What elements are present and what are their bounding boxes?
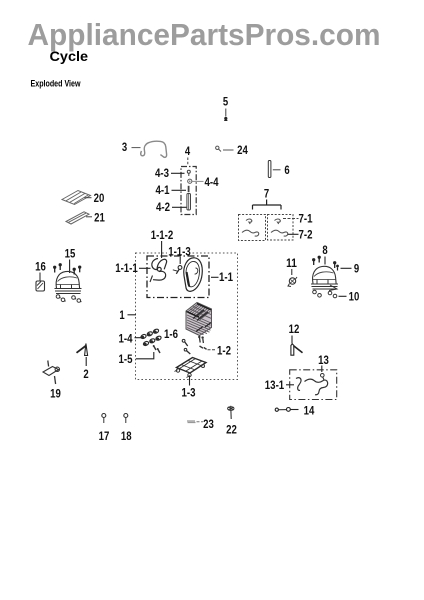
svg-text:1-4: 1-4 (119, 332, 133, 346)
part 21 strip (66, 212, 89, 224)
svg-text:1-5: 1-5 (119, 352, 133, 366)
leader 1-4 (135, 337, 142, 339)
label 5 (223, 95, 229, 109)
label 21 (94, 211, 105, 225)
label 4-3 (155, 166, 169, 180)
svg-text:1-1: 1-1 (219, 270, 233, 284)
label 14 (304, 404, 315, 418)
svg-text:20: 20 (94, 191, 105, 205)
part 14 (275, 408, 298, 412)
part 17 screw (102, 414, 106, 424)
leader 13 (321, 366, 323, 373)
part 7-2a clip (275, 219, 281, 224)
svg-text:1-1-1: 1-1-1 (115, 261, 138, 275)
box 7-1 (239, 215, 266, 241)
part 6 pin (268, 161, 271, 178)
part 2 pin (77, 344, 88, 356)
label 15 (65, 247, 76, 261)
svg-text:15: 15 (65, 247, 76, 261)
label 1-1-2 (151, 228, 174, 242)
part 13 screw (321, 374, 325, 381)
svg-text:4-3: 4-3 (155, 166, 169, 180)
leader 5 (225, 109, 227, 117)
label 3 (122, 140, 128, 154)
svg-text:13: 13 (318, 353, 329, 367)
part 13 tube (305, 379, 328, 395)
svg-text:24: 24 (237, 143, 248, 157)
leader 3 (132, 147, 141, 149)
leader 6 (273, 169, 281, 171)
part evaporator (186, 303, 212, 339)
label 20 (94, 191, 105, 205)
part 8 bolts (313, 256, 336, 268)
svg-text:Cycle: Cycle (50, 49, 89, 65)
part 1-1 blower (184, 258, 203, 292)
label 4 (185, 144, 191, 158)
part 18 screw (124, 414, 128, 424)
label 23 (203, 417, 214, 431)
svg-text:13-1: 13-1 (265, 378, 285, 392)
svg-text:4: 4 (185, 144, 191, 158)
part 1-3 tray (175, 358, 207, 378)
svg-text:1-2: 1-2 (217, 344, 231, 358)
label 7 (264, 187, 270, 201)
svg-text:AppliancePartsPros.com: AppliancePartsPros.com (28, 17, 381, 52)
part 1-2 bolts (198, 336, 207, 350)
part 1-1-1 fan motor (150, 259, 167, 283)
box 1 (136, 253, 238, 380)
label 9 (354, 262, 360, 276)
part 7-1a clip (246, 219, 252, 224)
svg-text:17: 17 (99, 429, 110, 443)
label 13 (318, 353, 329, 367)
svg-text:4-4: 4-4 (205, 175, 219, 189)
part 20 grille (62, 191, 91, 205)
leader 12 (291, 336, 293, 344)
label 1-2 (217, 344, 231, 358)
svg-text:4-2: 4-2 (156, 200, 170, 214)
leader 1-1-1 (139, 267, 151, 269)
label 1-1-3 (167, 245, 192, 259)
svg-text:19: 19 (50, 387, 61, 401)
part 5 screw (224, 117, 227, 121)
leader 7-1 (283, 218, 299, 220)
label 1-3 (182, 386, 196, 400)
leader 1 (128, 314, 137, 316)
label 1-6 (164, 327, 178, 341)
watermark AppliancePartsPros.com (28, 17, 381, 52)
leader 7-2 (288, 233, 299, 235)
subtitle Exploded View (31, 78, 82, 88)
part 22 screw (228, 406, 234, 419)
part 11 (288, 269, 297, 287)
leader 24 (223, 149, 234, 151)
svg-text:1-1-2: 1-1-2 (151, 228, 174, 242)
svg-text:18: 18 (121, 429, 132, 443)
svg-text:Exploded View: Exploded View (31, 78, 82, 88)
label 4-1 (156, 183, 170, 197)
label 4-4 (205, 175, 219, 189)
leader 1-1 (211, 276, 219, 278)
part 1-4 dampers (140, 328, 161, 346)
leader 1-1-2 (161, 241, 163, 258)
label 8 (322, 243, 328, 257)
svg-text:3: 3 (122, 140, 128, 154)
leader 10 (339, 295, 347, 297)
svg-text:23: 23 (203, 417, 214, 431)
leader 1-5 (136, 352, 154, 359)
label 17 (99, 429, 110, 443)
label 12 (289, 322, 300, 336)
svg-text:16: 16 (35, 260, 46, 274)
leader 15 (69, 260, 71, 274)
part 16 (36, 273, 45, 292)
label 22 (226, 423, 237, 437)
svg-text:9: 9 (354, 262, 360, 276)
leader 1-2 (208, 349, 216, 351)
label 16 (35, 260, 46, 274)
svg-text:21: 21 (94, 211, 105, 225)
svg-text:10: 10 (349, 290, 360, 304)
part 4-3 screw (187, 170, 190, 176)
leader 20 (85, 197, 92, 199)
label 7-1 (299, 212, 313, 226)
leader 1-3 (189, 376, 191, 386)
leader 13-1 (286, 384, 294, 386)
part 9 screw (336, 265, 339, 271)
label 13-1 (265, 378, 285, 392)
part 19 bracket (43, 361, 60, 385)
svg-text:2: 2 (83, 367, 89, 381)
box 1-1 (147, 256, 209, 298)
part 8 compressor (311, 266, 338, 297)
svg-text:7: 7 (264, 187, 270, 201)
label 4-2 (156, 200, 170, 214)
leader 4-1 (172, 189, 187, 191)
svg-text:8: 8 (322, 243, 328, 257)
label 7-2 (299, 228, 313, 242)
part 1-5 screws (153, 345, 160, 353)
svg-text:5: 5 (223, 95, 229, 109)
svg-text:12: 12 (289, 322, 300, 336)
part 7-2b tube (271, 230, 288, 236)
leader 4-4 (193, 180, 204, 182)
part 3 clamp (141, 141, 167, 157)
part 24 screw (216, 146, 221, 151)
svg-text:1-3: 1-3 (182, 386, 196, 400)
leader 4 (187, 158, 189, 167)
leader 2 (85, 357, 87, 366)
part 1-6 screws (182, 339, 190, 354)
svg-text:1: 1 (119, 308, 125, 322)
label 18 (121, 429, 132, 443)
leader 8 (324, 257, 326, 265)
box 4 (181, 167, 196, 215)
svg-text:22: 22 (226, 423, 237, 437)
part 13-1 tube (296, 378, 301, 391)
part 4-2 cylinder (187, 194, 191, 211)
svg-text:14: 14 (304, 404, 315, 418)
part 15 bolts (54, 264, 81, 275)
label 1-1 (219, 270, 233, 284)
leader 9 (341, 267, 352, 269)
box 13 (290, 370, 337, 400)
label 1-4 (119, 332, 133, 346)
svg-text:4-1: 4-1 (156, 183, 170, 197)
label 6 (284, 163, 290, 177)
label 1-1-1 (115, 261, 138, 275)
leader 21 (86, 216, 92, 218)
leader 4-3 (171, 172, 185, 174)
part 4-4 grommet (188, 179, 192, 183)
leader 23 (197, 421, 204, 423)
part 7-1b tube (242, 230, 259, 236)
label 11 (286, 256, 297, 270)
label 10 (349, 290, 360, 304)
part 15 compressor (55, 271, 82, 302)
title Cycle (50, 49, 89, 65)
svg-text:11: 11 (286, 256, 297, 270)
label 2 (83, 367, 89, 381)
part 1-1-3 screw (173, 266, 182, 274)
label 19 (50, 387, 61, 401)
label 24 (237, 143, 248, 157)
part 23 clip (187, 421, 196, 423)
svg-text:7-2: 7-2 (299, 228, 313, 242)
leader 1-1-3 (179, 257, 181, 264)
label 1 (119, 308, 125, 322)
svg-text:7-1: 7-1 (299, 212, 313, 226)
svg-text:6: 6 (284, 163, 290, 177)
leader 4-2 (172, 206, 187, 208)
label 1-5 (119, 352, 133, 366)
part 12 (291, 344, 303, 355)
bracket 7 (253, 200, 282, 210)
box 7-2 (268, 215, 294, 241)
part 4-1 pin (188, 186, 190, 192)
svg-text:1-6: 1-6 (164, 327, 178, 341)
